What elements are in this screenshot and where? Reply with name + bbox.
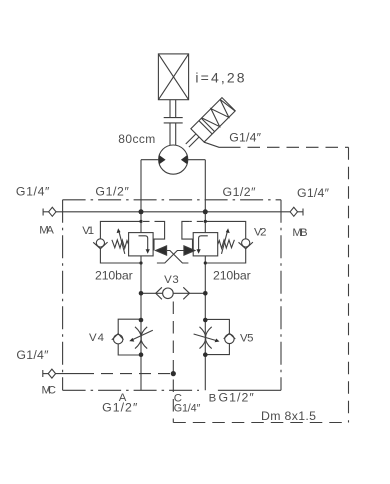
svg-text:210bar: 210bar <box>95 268 133 282</box>
brake port connection <box>204 142 228 147</box>
svg-text:G1/2″: G1/2″ <box>102 401 138 415</box>
cross-over check triangles <box>156 246 195 263</box>
junction dots <box>139 209 208 376</box>
port MA <box>43 207 56 216</box>
throttle check valve V5 <box>194 319 236 354</box>
svg-text:G1/4″: G1/4″ <box>174 403 201 415</box>
svg-text:G1/4″: G1/4″ <box>16 348 49 362</box>
motor triangle left <box>159 155 166 165</box>
svg-text:V4: V4 <box>89 332 104 344</box>
wire: motor right port horizontal <box>188 159 206 161</box>
svg-text:80ccm: 80ccm <box>118 132 155 146</box>
svg-text:V3: V3 <box>164 274 179 286</box>
relief valve V1 <box>93 221 164 263</box>
svg-text:B: B <box>209 393 217 405</box>
svg-text:G1/4″: G1/4″ <box>297 186 330 200</box>
hydraulic motor 80ccm <box>159 145 188 174</box>
svg-text:Dm 8x1.5: Dm 8x1.5 <box>261 409 316 423</box>
shaft with coupling <box>164 100 183 146</box>
wire: MA-MB horizontal line <box>56 211 290 213</box>
brake cylinder (rotated 45deg) <box>181 98 236 153</box>
svg-text:G1/2″: G1/2″ <box>219 391 255 405</box>
gearbox i=4,28 <box>158 54 188 100</box>
wire: line A vertical <box>140 160 142 391</box>
svg-text:i=4,28: i=4,28 <box>195 69 244 85</box>
wire: motor left port horizontal <box>141 159 159 161</box>
svg-text:210bar: 210bar <box>213 268 251 282</box>
svg-text:G1/4″: G1/4″ <box>16 185 50 199</box>
throttle check valve V4 <box>112 319 153 355</box>
svg-text:MB: MB <box>292 227 307 239</box>
shuttle valve V3 <box>141 287 205 299</box>
svg-text:G1/2″: G1/2″ <box>95 184 129 198</box>
motor triangle right <box>181 155 188 165</box>
wire: line B vertical <box>204 160 206 391</box>
port MC <box>43 369 174 378</box>
svg-text:G1/4″: G1/4″ <box>229 131 261 145</box>
svg-text:V2: V2 <box>254 227 267 239</box>
relief valve V2 <box>182 221 253 263</box>
port MB <box>290 207 303 216</box>
svg-text:MC: MC <box>42 384 57 396</box>
manifold block boundary (dash-dot) <box>63 200 281 390</box>
svg-text:V1: V1 <box>82 225 94 237</box>
svg-text:G1/2″: G1/2″ <box>223 185 257 199</box>
pilot line C vertical (dashed) <box>172 302 174 423</box>
svg-text:MA: MA <box>39 224 54 236</box>
svg-text:V5: V5 <box>240 333 254 345</box>
external pipe Dm 8x1.5 (dashed) <box>173 147 348 422</box>
